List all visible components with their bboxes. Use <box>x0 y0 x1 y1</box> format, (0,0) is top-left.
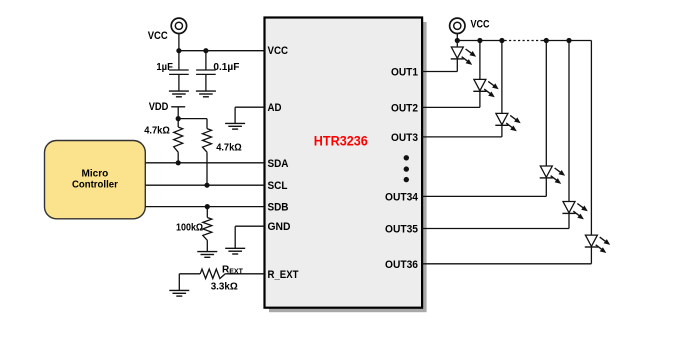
svg-text:VCC: VCC <box>471 19 490 31</box>
svg-text:VCC: VCC <box>268 45 289 57</box>
svg-text:SDB: SDB <box>268 202 289 214</box>
svg-text:Micro: Micro <box>82 169 109 180</box>
svg-text:OUT35: OUT35 <box>385 224 418 236</box>
svg-text:SDA: SDA <box>268 158 289 170</box>
svg-text:VCC: VCC <box>148 30 168 42</box>
svg-text:GND: GND <box>268 221 291 233</box>
svg-text:100kΩ: 100kΩ <box>176 222 203 234</box>
svg-text:4.7kΩ: 4.7kΩ <box>216 141 242 153</box>
svg-text:4.7kΩ: 4.7kΩ <box>144 124 170 136</box>
svg-text:OUT2: OUT2 <box>391 102 418 114</box>
svg-text:Controller: Controller <box>72 179 118 190</box>
svg-text:R_EXT: R_EXT <box>268 269 299 281</box>
svg-text:OUT3: OUT3 <box>391 132 418 144</box>
svg-text:0.1µF: 0.1µF <box>213 61 240 73</box>
svg-text:OUT1: OUT1 <box>391 67 418 79</box>
svg-text:1µF: 1µF <box>156 61 173 73</box>
svg-text:AD: AD <box>268 102 282 114</box>
svg-text:OUT36: OUT36 <box>385 259 418 271</box>
svg-text:3.3kΩ: 3.3kΩ <box>211 280 238 292</box>
svg-text:SCL: SCL <box>268 180 288 192</box>
svg-text:HTR3236: HTR3236 <box>314 133 368 148</box>
svg-text:VDD: VDD <box>149 101 169 113</box>
svg-text:OUT34: OUT34 <box>385 191 419 203</box>
